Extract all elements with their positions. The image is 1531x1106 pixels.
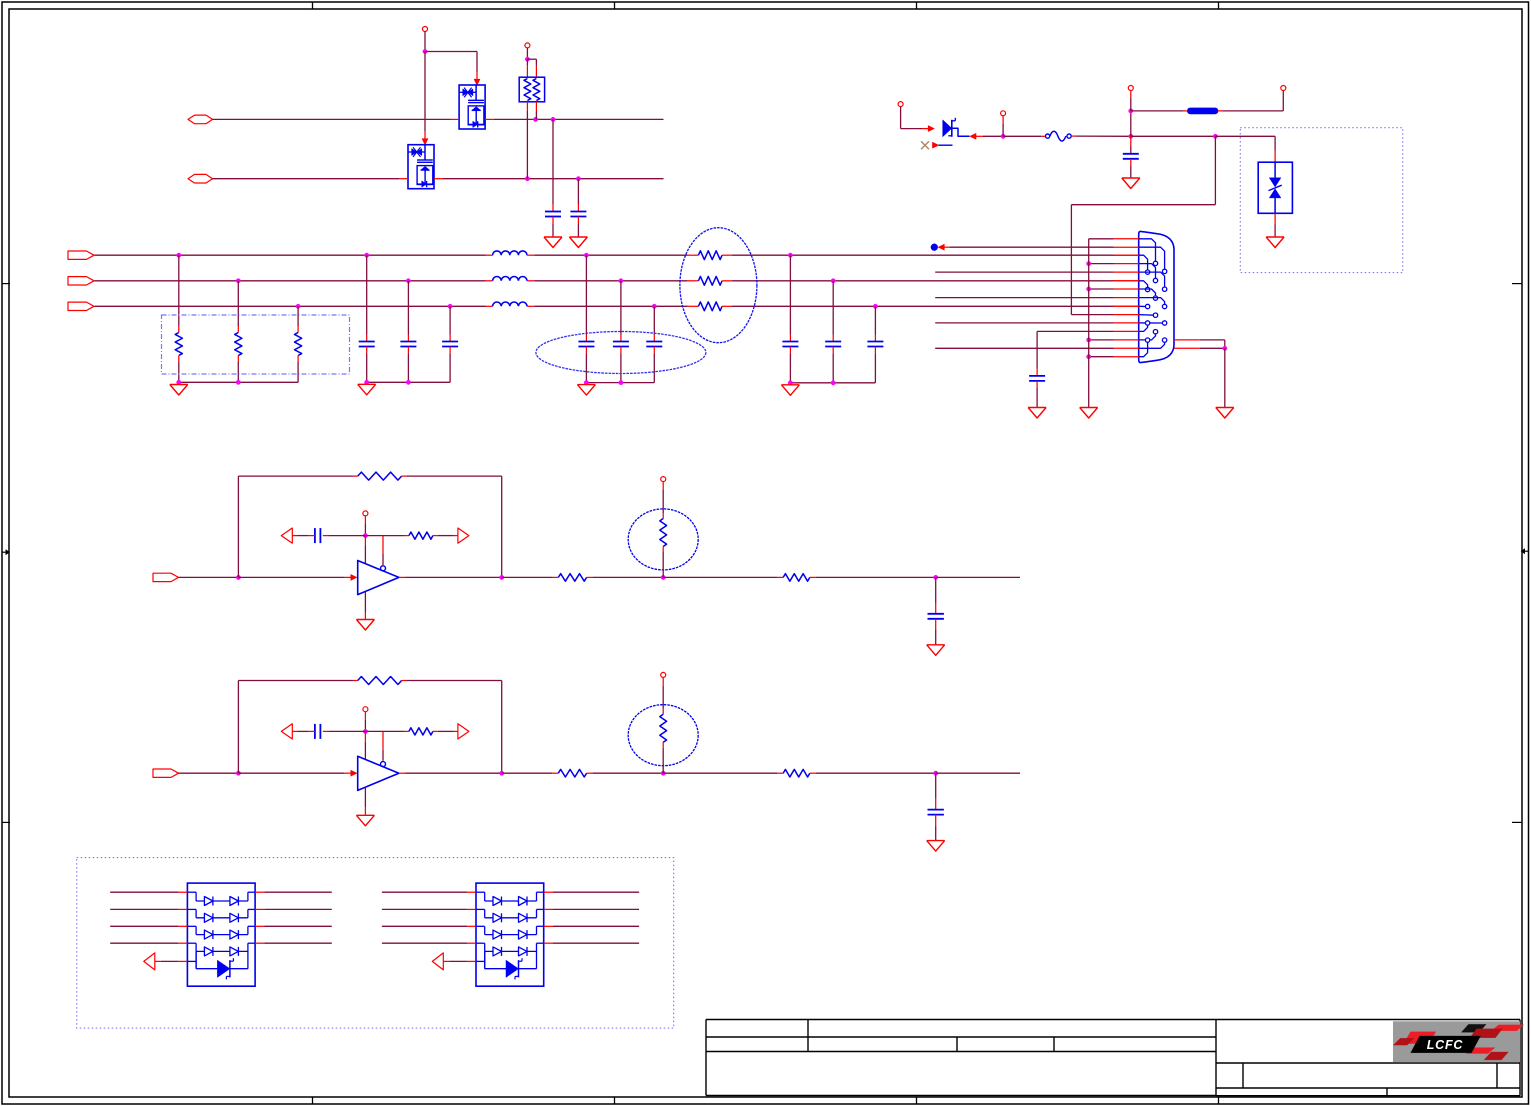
svg-text:LCFC: LCFC: [1427, 1038, 1464, 1052]
